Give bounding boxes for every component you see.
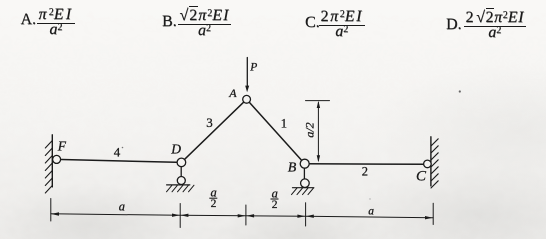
svg-text:1: 1: [281, 116, 287, 130]
hinge circle D: [177, 158, 186, 167]
tick at D: [179, 204, 181, 228]
svg-text:4: 4: [114, 145, 121, 160]
roller link at B: [303, 168, 305, 179]
member 1 (A-B): [247, 99, 305, 163]
bottom dimension line: [51, 199, 433, 228]
svg-text:D: D: [170, 142, 181, 157]
faint speck above dim a right: [369, 198, 370, 199]
svg-text:A: A: [228, 86, 237, 100]
svg-text:C: C: [416, 169, 427, 185]
svg-text:a: a: [119, 200, 125, 214]
ground line at D: [167, 184, 190, 186]
tick at wall F: [50, 199, 52, 222]
roller link at D: [180, 167, 182, 177]
svg-text:a: a: [368, 206, 374, 218]
stacked label a/2 (second): [271, 187, 279, 212]
member 2 (B-C): [305, 163, 428, 166]
member 3 (D-A): [181, 99, 246, 162]
option C: 2 pi^2 EI / a^2: [0, 0, 1, 1]
roller circle at D: [177, 177, 185, 185]
option A: pi^2 EI / a^2: [0, 0, 1, 1]
hinge circle A: [243, 95, 251, 103]
ground hatching at D: [167, 185, 195, 192]
option B: sqrt2 pi^2 EI / a^2: [0, 0, 1, 1]
right wall at C: [431, 137, 438, 188]
svg-text:2: 2: [211, 198, 217, 210]
svg-text:3: 3: [206, 115, 213, 130]
svg-text:a/2: a/2: [303, 122, 317, 137]
hinge circle B: [300, 159, 309, 168]
svg-text:B: B: [288, 161, 297, 176]
svg-text:F: F: [57, 139, 67, 154]
ground hatching at B: [292, 188, 314, 195]
load arrow P: [245, 58, 249, 93]
stray speck right of member 4 label: [122, 147, 124, 149]
svg-text:2: 2: [362, 164, 368, 178]
tick at wall C: [432, 203, 434, 224]
ground line at B: [293, 187, 314, 189]
vertical dimension a/2 (A to B level): [306, 101, 330, 161]
option D: 2 sqrt2 pi^2 EI / a^2: [0, 0, 1, 1]
left wall at F: [45, 135, 52, 193]
svg-text:2: 2: [272, 199, 278, 211]
stray scan speck near top right: [459, 90, 461, 92]
pin circle C: [424, 160, 432, 168]
tick at midspan: [245, 205, 247, 225]
roller circle at B: [301, 179, 310, 188]
member 4 (F-D): [57, 159, 182, 162]
dimension arrowheads: [51, 212, 433, 219]
pin circle F: [53, 155, 61, 163]
svg-text:P: P: [249, 62, 257, 74]
stacked label a/2 (first): [209, 186, 217, 211]
tick at B: [305, 203, 307, 226]
